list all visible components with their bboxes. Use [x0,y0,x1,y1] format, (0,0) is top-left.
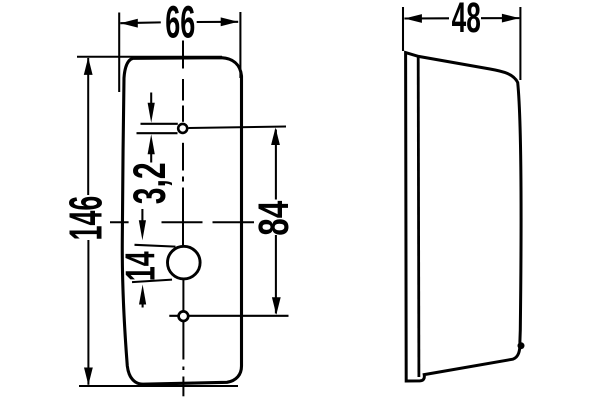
dimension 84 bottom arrowhead [272,297,281,315]
dimension 66 lines [119,12,240,92]
dimension 84 lines [169,127,288,316]
svg-text:146: 146 [60,196,111,241]
dimension 146 lines [77,57,238,386]
dimension 14 lines [132,209,176,308]
lamp front view outline [122,58,241,385]
lamp side view outline [406,53,521,381]
svg-text:66: 66 [165,0,195,47]
top mounting hole [178,124,187,133]
dimension 48 left arrowhead [404,14,422,23]
dimension 48 right arrowhead [502,14,520,23]
dimension 146 top arrowhead [84,57,93,75]
svg-text:48: 48 [452,0,481,41]
svg-text:3,2: 3,2 [125,162,176,204]
vertical centerline (dash-dot) [182,41,184,397]
side view lens seam line [417,57,420,377]
dimension 3,2 lower arrowhead [148,134,155,154]
dimension 3,2 lines [137,93,178,163]
horizontal centerline (dash-dot) [110,221,254,223]
dimension 66 left arrowhead [120,19,138,28]
bottom mounting hole [179,311,189,321]
svg-text:14: 14 [117,251,163,281]
svg-text:84: 84 [249,201,297,236]
dimension 48 lines [403,7,520,80]
dimension 14 upper arrowhead [139,220,146,240]
dimension 84 top arrowhead [271,128,280,146]
dimension 3,2 upper arrowhead [148,103,155,123]
large center hole [168,246,201,279]
dimension 66 right arrowhead [221,17,239,26]
side view stud [518,342,525,349]
dimension 146 bottom arrowhead [84,368,93,386]
dimension 14 lower arrowhead [139,285,146,305]
